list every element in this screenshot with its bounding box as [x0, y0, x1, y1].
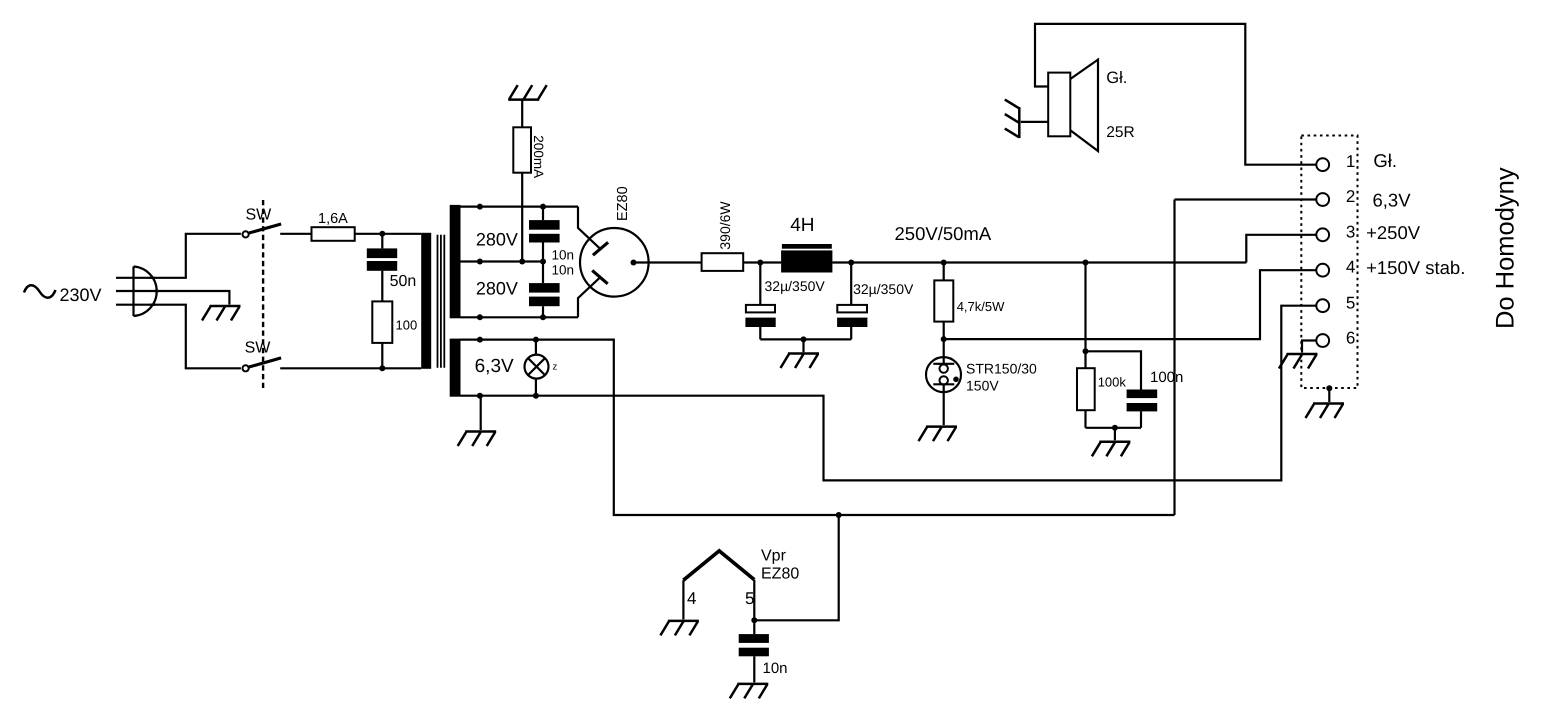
- svg-text:+150V stab.: +150V stab.: [1366, 257, 1465, 278]
- svg-text:150V: 150V: [966, 377, 999, 393]
- capacitor C5 100n: [1127, 390, 1158, 428]
- node 6,3V bottom terminals: [477, 393, 539, 399]
- label 4,7k/5W: [957, 299, 1005, 314]
- wire fuse to centre tap: [521, 173, 523, 262]
- node connector shield: [1326, 385, 1332, 391]
- wire fuse to transformer: [355, 233, 422, 235]
- svg-text:5: 5: [745, 589, 754, 608]
- svg-text:3: 3: [1346, 222, 1355, 241]
- label 50n: [390, 273, 417, 290]
- wire pin1 to speaker: [1035, 24, 1316, 165]
- wire HT winding centre tap: [461, 260, 544, 262]
- label 6,3V pin2: [1373, 189, 1412, 210]
- svg-text:4: 4: [1346, 258, 1355, 277]
- svg-text:STR150/30: STR150/30: [966, 360, 1037, 376]
- wire 6,3V winding top: [461, 340, 1175, 515]
- label 4H: [790, 215, 814, 236]
- svg-text:SW: SW: [245, 339, 272, 356]
- label 32u/350V right: [853, 281, 914, 297]
- resistor 100k: [1077, 368, 1095, 428]
- transformer core laminations: [438, 235, 445, 368]
- label 1,6A: [318, 211, 348, 227]
- ground connector shield: [1306, 404, 1345, 419]
- wire bottom switch to transformer: [280, 367, 421, 369]
- svg-text:100k: 100k: [1098, 375, 1127, 390]
- svg-text:2: 2: [1346, 187, 1355, 206]
- node heater tap: [836, 512, 842, 518]
- label Gl. pin1: [1373, 150, 1397, 171]
- label 10n heater: [763, 660, 788, 677]
- svg-text:6: 6: [1346, 328, 1355, 347]
- lamp z: [525, 340, 549, 396]
- label 100: [396, 318, 418, 333]
- node fuse-cap junction: [379, 231, 385, 237]
- ground heater pin4: [660, 621, 699, 636]
- ground speaker (rotated): [1005, 100, 1020, 139]
- capacitor C4 32u/350V: [837, 263, 867, 340]
- svg-text:50n: 50n: [390, 273, 417, 290]
- svg-text:200mA: 200mA: [531, 135, 546, 178]
- svg-text:10n: 10n: [552, 248, 575, 263]
- wire plug bottom prong to bottom switch: [150, 305, 241, 369]
- wire bleeder bottom: [1086, 428, 1142, 441]
- capacitor C3 32u/350V: [745, 263, 775, 340]
- label 32u/350V left: [765, 278, 826, 294]
- node 4,7k top: [941, 260, 947, 266]
- svg-text:32µ/350V: 32µ/350V: [765, 278, 826, 294]
- node HT top at cap: [540, 204, 546, 210]
- pin 3: [1316, 222, 1355, 241]
- transformer 6,3V winding bar: [450, 339, 461, 397]
- fuse F2 200mA: [513, 127, 531, 172]
- svg-text:z: z: [553, 362, 558, 373]
- wire choke to rail: [832, 261, 1246, 263]
- ground bleeder: [1092, 442, 1131, 457]
- svg-text:1,6A: 1,6A: [318, 211, 348, 227]
- svg-text:10n: 10n: [552, 263, 575, 278]
- wire bleeder drop: [1086, 263, 1142, 390]
- capacitor C2 10n: [529, 262, 560, 318]
- label 100n: [1150, 369, 1183, 386]
- ground STR cathode: [919, 427, 958, 442]
- label Gl. speaker: [1106, 69, 1127, 87]
- svg-text:25R: 25R: [1106, 124, 1134, 141]
- speaker Gl. 25R: [1048, 60, 1098, 151]
- switch SW2: [243, 358, 282, 372]
- wire shield to ground: [1328, 388, 1330, 402]
- pin 4: [1316, 258, 1355, 277]
- wire HT winding top: [461, 206, 579, 208]
- fuse F1 1,6A: [312, 227, 355, 241]
- node resistor-bottom junction: [379, 365, 385, 371]
- svg-text:390/6W: 390/6W: [717, 201, 733, 250]
- transformer HT secondary bar: [450, 205, 461, 318]
- wire pin3 to B+ rail: [1246, 235, 1315, 263]
- label 10n lower: [552, 263, 575, 278]
- svg-text:Vpr: Vpr: [761, 548, 787, 565]
- pin 5: [1316, 294, 1355, 313]
- node STR junction: [941, 336, 947, 342]
- AC source symbol ~: [24, 285, 56, 297]
- wire heater tap down: [754, 515, 838, 620]
- svg-text:Gł.: Gł.: [1373, 150, 1397, 171]
- label STR150/30: [966, 360, 1037, 376]
- svg-text:100: 100: [396, 318, 418, 333]
- node 6,3V top terminals: [477, 337, 539, 343]
- label 25R: [1106, 124, 1134, 141]
- node winding terminals: [477, 204, 483, 321]
- svg-text:EZ80: EZ80: [761, 565, 799, 582]
- node filter ground: [801, 336, 807, 342]
- svg-text:250V/50mA: 250V/50mA: [895, 223, 992, 244]
- resistor 390/6W: [702, 253, 782, 271]
- ground mains earth: [202, 306, 241, 321]
- label 250V/50mA: [895, 223, 992, 244]
- label 280V lower: [476, 278, 518, 298]
- svg-text:6,3V: 6,3V: [1373, 189, 1412, 210]
- mains plug P1: [116, 267, 159, 317]
- label 230V: [60, 285, 102, 305]
- node choke right: [848, 260, 854, 266]
- wire plug middle prong to earth: [155, 291, 229, 305]
- svg-text:32µ/350V: 32µ/350V: [853, 281, 914, 297]
- label pin 5: [745, 589, 754, 608]
- wire +150V stab rail: [944, 270, 1316, 339]
- switch SW1: [243, 224, 282, 237]
- node bleeder split: [1083, 348, 1089, 354]
- connector outline (dashed): [1301, 136, 1357, 389]
- label pin 4: [687, 589, 696, 608]
- capacitor 50n: [367, 234, 397, 302]
- svg-text:100n: 100n: [1150, 369, 1183, 386]
- svg-text:SW: SW: [246, 207, 273, 224]
- label 10n upper: [552, 248, 575, 263]
- node heater pin5: [751, 617, 757, 623]
- wire plug top prong to top switch: [150, 234, 241, 278]
- label 390/6W: [717, 201, 733, 250]
- svg-text:1: 1: [1346, 152, 1355, 171]
- label z: [553, 362, 558, 373]
- heater Vpr EZ80: [683, 551, 754, 621]
- wire 6,3V to ground: [480, 396, 482, 430]
- svg-text:Gł.: Gł.: [1106, 69, 1127, 87]
- pin 6: [1316, 328, 1355, 347]
- label +150V stab. pin4: [1366, 257, 1465, 278]
- pin 2: [1316, 187, 1355, 206]
- wire HT winding bottom: [461, 316, 579, 318]
- svg-text:Do Homodyny: Do Homodyny: [1492, 167, 1520, 329]
- wire ground to fuse: [521, 100, 523, 128]
- label SW bottom: [245, 339, 272, 356]
- label SW top: [246, 207, 273, 224]
- svg-text:5: 5: [1346, 294, 1355, 313]
- label EZ80 heater: [761, 565, 799, 582]
- node bleeder ground: [1112, 425, 1118, 431]
- label 150V: [966, 377, 999, 393]
- label Vpr: [761, 548, 787, 565]
- stabiliser tube V2 STR150/30: [926, 339, 961, 425]
- label 280V upper: [476, 230, 518, 250]
- svg-text:EZ80: EZ80: [615, 186, 631, 221]
- node centre tap junctions: [519, 259, 546, 265]
- wire top switch to fuse: [280, 233, 311, 235]
- label Do Homodyny: [1492, 167, 1520, 329]
- wire cap commons: [760, 339, 851, 352]
- svg-text:4,7k/5W: 4,7k/5W: [957, 299, 1005, 314]
- svg-text:6,3V: 6,3V: [475, 356, 514, 377]
- svg-text:230V: 230V: [60, 285, 102, 305]
- wire pin6 to ground: [1302, 341, 1316, 353]
- svg-text:10n: 10n: [763, 660, 788, 677]
- ground above 200mA fuse (inverted): [508, 85, 547, 100]
- pin 1: [1316, 152, 1355, 171]
- capacitor C1 10n: [529, 207, 560, 262]
- label EZ80: [615, 186, 631, 221]
- wire 6,3V winding bottom: [461, 306, 1316, 481]
- svg-text:4: 4: [687, 589, 696, 608]
- label +250V pin3: [1366, 222, 1421, 243]
- rectifier tube V1 EZ80: [578, 207, 702, 318]
- resistor 100: [372, 301, 392, 367]
- choke L1 4H: [781, 244, 832, 273]
- ground 6,3V winding: [458, 432, 497, 447]
- svg-text:+250V: +250V: [1366, 222, 1421, 243]
- node bleeder top: [1083, 260, 1089, 266]
- ground pin6: [1279, 354, 1318, 369]
- ground filter caps: [781, 354, 820, 369]
- label 6,3V winding: [475, 356, 514, 377]
- svg-text:280V: 280V: [476, 278, 518, 298]
- ground heater cap: [730, 684, 769, 699]
- wire pin2 drop: [1175, 200, 1316, 516]
- transformer primary winding bar: [421, 233, 431, 369]
- label 100k: [1098, 375, 1127, 390]
- node choke left: [757, 260, 763, 266]
- svg-text:4H: 4H: [790, 215, 814, 236]
- wire speaker to ground: [1021, 121, 1048, 123]
- capacitor C6 10n heater: [739, 620, 769, 682]
- node HT bottom at cap: [540, 314, 546, 320]
- dashed switch link: [262, 200, 264, 390]
- label 200mA: [531, 135, 546, 178]
- svg-text:280V: 280V: [476, 230, 518, 250]
- resistor 4,7k/5W: [934, 263, 953, 340]
